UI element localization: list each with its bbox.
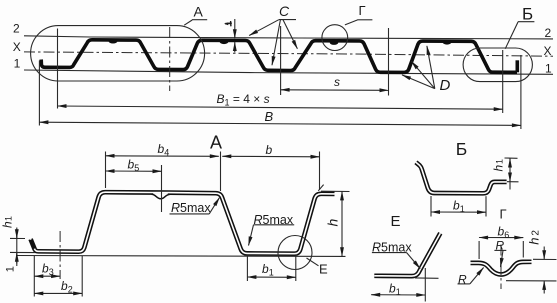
dimension b [222, 155, 319, 158]
extension line at sheet left edge [38, 61, 40, 126]
b2 extension right [81, 256, 83, 297]
h1 (B) arrow up [509, 158, 511, 166]
svg-text:C: C [279, 3, 290, 19]
b3 centerline dash-dot [59, 231, 61, 279]
extension line B1 right [502, 50, 504, 113]
lip top extension h1 [10, 237, 25, 239]
notch groove of detail A: erase straight bottom line [153, 193, 168, 196]
b1 extension right (A) [295, 256, 297, 281]
underline R5max first [170, 213, 210, 215]
svg-text:b1: b1 [389, 281, 401, 297]
svg-text:A: A [194, 3, 204, 19]
flange bottom extension left [10, 251, 35, 253]
dimension B1 [58, 106, 503, 109]
h1 dimension (B) shaft [509, 158, 511, 189]
svg-text:h: h [492, 165, 506, 172]
detail boundary circle G [322, 25, 348, 51]
leader B [505, 22, 518, 49]
svg-text:1: 1 [4, 216, 14, 221]
detail boundary oval B [463, 48, 532, 82]
underline of B [518, 21, 535, 23]
b1 extension left (A) [246, 256, 248, 281]
notch 4 on flange [443, 40, 452, 45]
dimension b3 [34, 275, 60, 277]
leader E [307, 258, 319, 266]
svg-text:Б: Б [522, 5, 533, 24]
svg-text:b2: b2 [61, 279, 73, 295]
svg-text:X: X [13, 40, 21, 54]
svg-text:E: E [319, 262, 328, 277]
baseline under detail A [16, 255, 346, 258]
svg-text:2: 2 [530, 230, 541, 236]
dimension b2 [34, 292, 82, 294]
leader R lower [470, 268, 484, 284]
sheet profile (top view) [41, 40, 517, 73]
svg-text:Г: Г [500, 207, 507, 222]
svg-text:h: h [526, 238, 541, 245]
detail A sheet (double line) [31, 192, 335, 254]
h top extension [321, 190, 350, 192]
underline R lower [458, 283, 470, 285]
svg-text:A: A [210, 132, 222, 152]
svg-text:R5max: R5max [171, 201, 211, 215]
dimension b1 (E) [371, 294, 425, 296]
underline R5max (E) [372, 252, 407, 254]
h2 arrow down [543, 247, 545, 260]
b6 extension left [478, 241, 480, 259]
leader R5max second [249, 225, 254, 246]
leader of A [184, 20, 192, 25]
notch 2 on flange [220, 39, 229, 44]
dimension b5 [106, 170, 162, 172]
svg-text:b1: b1 [262, 262, 274, 278]
svg-text:X: X [544, 44, 552, 58]
b1 extension (E) [424, 268, 426, 302]
notch groove lower line dip [152, 194, 170, 199]
b1 extension left (B) [430, 196, 432, 217]
extension line b right [319, 152, 321, 191]
extension line b4 right / b left [220, 152, 222, 192]
h2 top extension [533, 258, 557, 260]
t dimension line lower [234, 42, 236, 52]
detail E sheet [374, 233, 440, 276]
underline of G [357, 19, 372, 21]
dimension B [39, 122, 521, 125]
top view: level line 1 [24, 70, 553, 74]
svg-text:D: D [440, 77, 451, 94]
label t [225, 22, 232, 25]
svg-text:1: 1 [495, 159, 505, 164]
leader C arrow 1 [249, 20, 279, 36]
extension line s right [388, 28, 390, 96]
centerline (G) [500, 245, 502, 290]
top view: level line 2 [24, 36, 553, 39]
notch 1 on flange [109, 39, 118, 44]
svg-text:2: 2 [13, 22, 20, 36]
underline R upper [494, 249, 506, 251]
underline of A [192, 19, 207, 21]
dimension b1 (A) [247, 276, 295, 278]
leader R upper [501, 250, 504, 267]
edge hook right end [515, 60, 519, 72]
h1 dimension line [16, 228, 18, 267]
dimension b6 [479, 237, 523, 239]
svg-text:b: b [266, 143, 273, 157]
sheet cut tick at right end of A [318, 185, 323, 191]
dimension b4 [106, 155, 219, 158]
svg-text:1: 1 [545, 62, 552, 76]
svg-text:b4: b4 [158, 142, 170, 158]
svg-text:Г: Г [359, 3, 366, 18]
dimension b1 (B) [431, 211, 486, 213]
notch centerline b5 right [161, 165, 163, 212]
leader D arrow 3 [427, 46, 435, 89]
extension line b4/b5 left [105, 152, 107, 189]
leader R5max (E) [407, 253, 421, 269]
extension line valley 1 center [169, 27, 171, 91]
dimension s [281, 89, 389, 92]
notch 3 on flange [330, 40, 339, 45]
leader R5max first [209, 198, 219, 214]
leader D arrow 2 [411, 61, 435, 88]
svg-text:Б: Б [456, 139, 467, 159]
h2 arrow up [543, 281, 545, 294]
leader G [345, 20, 358, 25]
svg-text:B1 = 4 × s: B1 = 4 × s [217, 92, 270, 108]
underline R5max second [254, 224, 295, 226]
extension line B right [520, 55, 522, 129]
lip solid overdraw (A) [31, 240, 34, 249]
svg-text:b1: b1 [453, 199, 465, 215]
svg-text:b3: b3 [42, 262, 54, 278]
svg-text:2: 2 [545, 26, 552, 40]
extension line s left [280, 26, 282, 95]
h1 (B) arrow down [509, 170, 511, 181]
extension line B1 left [57, 29, 59, 109]
svg-text:h: h [1, 221, 15, 228]
b1 extension right (B) [485, 196, 487, 216]
right flange extension (B) [507, 181, 519, 183]
h2 bottom extension [506, 280, 557, 282]
svg-text:s: s [334, 75, 340, 89]
b6 extension right [522, 241, 524, 258]
svg-text:b5: b5 [128, 157, 140, 173]
detail G sheet wave [471, 262, 532, 275]
underline of C [279, 19, 296, 21]
leader D arrow 1 [402, 75, 435, 89]
t dimension line upper [234, 19, 236, 38]
b2 extension left [33, 256, 35, 297]
svg-text:B: B [265, 109, 274, 124]
h1 top tick (B) [505, 157, 518, 159]
h1 arrow down [16, 229, 18, 238]
h dimension line [341, 191, 343, 256]
leader C arrow 2 [272, 20, 280, 65]
svg-text:h: h [325, 219, 341, 227]
detail B sheet [416, 162, 507, 193]
leader C arrow 3 [283, 20, 297, 49]
circle E [278, 236, 312, 270]
detail boundary oval A [31, 26, 205, 81]
sheet bottom surface extension (E) [415, 277, 439, 279]
h1 arrow up [16, 253, 18, 264]
svg-text:Е: Е [391, 213, 401, 230]
svg-text:1: 1 [14, 57, 21, 71]
svg-text:1: 1 [5, 266, 17, 272]
top view: neutral axis X dash-dot [24, 52, 553, 56]
